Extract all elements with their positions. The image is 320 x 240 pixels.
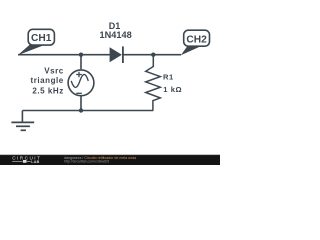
svg-text:1 kΩ: 1 kΩ (163, 85, 182, 94)
svg-text:R1: R1 (163, 73, 174, 82)
svg-text:1N4148: 1N4148 (100, 30, 132, 40)
svg-text:http://circuitlab.com/c/dxw62t: http://circuitlab.com/c/dxw62t (64, 160, 109, 164)
svg-text:CH2: CH2 (186, 34, 207, 45)
svg-text:Vsrc: Vsrc (44, 66, 64, 75)
svg-text:CH1: CH1 (31, 33, 52, 44)
probe flag CH1 (18, 29, 55, 55)
ground (11, 111, 34, 131)
wire top-left segment (18, 54, 110, 56)
footer logo underline left (12, 160, 22, 162)
footer logo mark (23, 160, 27, 163)
resistor R1 (146, 55, 161, 111)
svg-text:triangle: triangle (31, 76, 64, 85)
footer logo underline right (27, 160, 31, 162)
svg-text:LAB: LAB (31, 160, 39, 164)
node junction: R1 top (151, 53, 155, 57)
diode D1 (110, 46, 123, 63)
wire bottom rail (22, 110, 153, 112)
probe flag CH2 (181, 30, 210, 55)
node junction: Vsrc top (79, 53, 83, 57)
footer bar (0, 155, 220, 165)
wire top-right segment (123, 54, 181, 56)
svg-text:2.5 kHz: 2.5 kHz (32, 87, 63, 96)
node junction: Vsrc bottom (79, 108, 83, 112)
voltage source Vsrc (68, 55, 94, 111)
